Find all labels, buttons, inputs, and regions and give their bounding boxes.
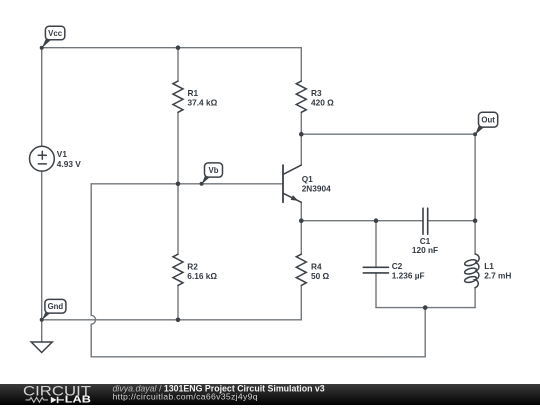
- wire hop over ground rail: [91, 315, 95, 324]
- wire C2 top: [375, 221, 377, 268]
- wire feedback left vertical lower: [90, 324, 92, 357]
- wire emitter link: [300, 202, 302, 220]
- wire emitter column to R4: [300, 221, 302, 255]
- wire R2 bottom: [177, 285, 179, 319]
- node emitter: [299, 218, 304, 223]
- wire top rail Vcc: [42, 47, 302, 49]
- capacitor C1: [423, 208, 428, 234]
- node at R1 top: [176, 45, 181, 50]
- logo diode: [51, 397, 57, 403]
- wire C2 bottom: [375, 273, 377, 308]
- svg-text:Gnd: Gnd: [48, 302, 64, 311]
- footer bar: [0, 384, 540, 405]
- wire collector link: [300, 134, 302, 165]
- net label Vcc: [40, 26, 65, 50]
- node base/R1R2: [176, 182, 181, 187]
- svg-text:LAB: LAB: [65, 395, 91, 405]
- svg-text:http://circuitlab.com/ca66v35z: http://circuitlab.com/ca66v35zj4y9q: [113, 392, 258, 402]
- resistor R1: [173, 81, 183, 112]
- wire base: [91, 183, 283, 185]
- wire Out drop: [474, 134, 476, 221]
- wire resonator bottom: [376, 307, 475, 309]
- wire bottom feedback rail: [91, 356, 425, 358]
- svg-text:R1: R1: [188, 88, 199, 98]
- voltage source V1: [30, 146, 55, 171]
- svg-text:2.7 mH: 2.7 mH: [484, 271, 511, 281]
- wire ground rail: [42, 319, 302, 321]
- wire C1 right plate to Out column: [428, 220, 475, 222]
- node bottom tap: [423, 305, 428, 310]
- wire R3 top: [300, 48, 302, 81]
- net label Out: [473, 112, 498, 136]
- node collector/Out: [299, 132, 304, 137]
- wire R1 top: [177, 48, 179, 81]
- ground: [31, 342, 52, 353]
- wire R1 bottom to R2 top: [177, 112, 179, 254]
- svg-text:V1: V1: [57, 149, 68, 159]
- net label Vb: [200, 163, 223, 186]
- wire L1 top: [474, 221, 476, 254]
- svg-text:120 nF: 120 nF: [412, 245, 438, 255]
- svg-text:Out: Out: [481, 116, 495, 125]
- svg-text:420 Ω: 420 Ω: [311, 97, 334, 107]
- logo resistor zigzag: [26, 398, 48, 403]
- svg-text:4.93 V: 4.93 V: [57, 159, 81, 169]
- node L1 top: [473, 218, 478, 223]
- svg-text:2N3904: 2N3904: [302, 183, 331, 193]
- transistor Q1: [283, 165, 301, 202]
- wire L1 bottom: [474, 288, 476, 308]
- node C2 tap: [374, 218, 379, 223]
- svg-text:R3: R3: [311, 88, 322, 98]
- resistor R4: [296, 254, 306, 285]
- net label Gnd: [40, 299, 66, 321]
- svg-text:1.236 µF: 1.236 µF: [392, 271, 425, 281]
- svg-text:6.16 kΩ: 6.16 kΩ: [187, 271, 217, 281]
- svg-text:37.4 kΩ: 37.4 kΩ: [188, 97, 218, 107]
- node R2 bottom: [176, 318, 181, 323]
- svg-text:50 Ω: 50 Ω: [311, 271, 330, 281]
- wire R3 bottom to collector node: [300, 112, 302, 134]
- svg-text:Vcc: Vcc: [48, 29, 63, 38]
- wire tap vertical: [424, 308, 426, 357]
- capacitor C2: [363, 267, 388, 273]
- svg-text:Vb: Vb: [209, 166, 219, 175]
- wire V1 bottom to Gnd node: [41, 171, 43, 320]
- resistor R3: [296, 81, 306, 112]
- wire emitter to C1 left plate: [301, 220, 423, 222]
- wire V1 top: [41, 48, 43, 147]
- resistor R2: [173, 254, 183, 285]
- wire R4 bottom: [300, 285, 302, 319]
- inductor L1: [464, 254, 479, 288]
- wire collector node to Out: [301, 133, 475, 135]
- wire feedback left vertical upper: [90, 184, 92, 316]
- wire Gnd stub: [41, 320, 43, 342]
